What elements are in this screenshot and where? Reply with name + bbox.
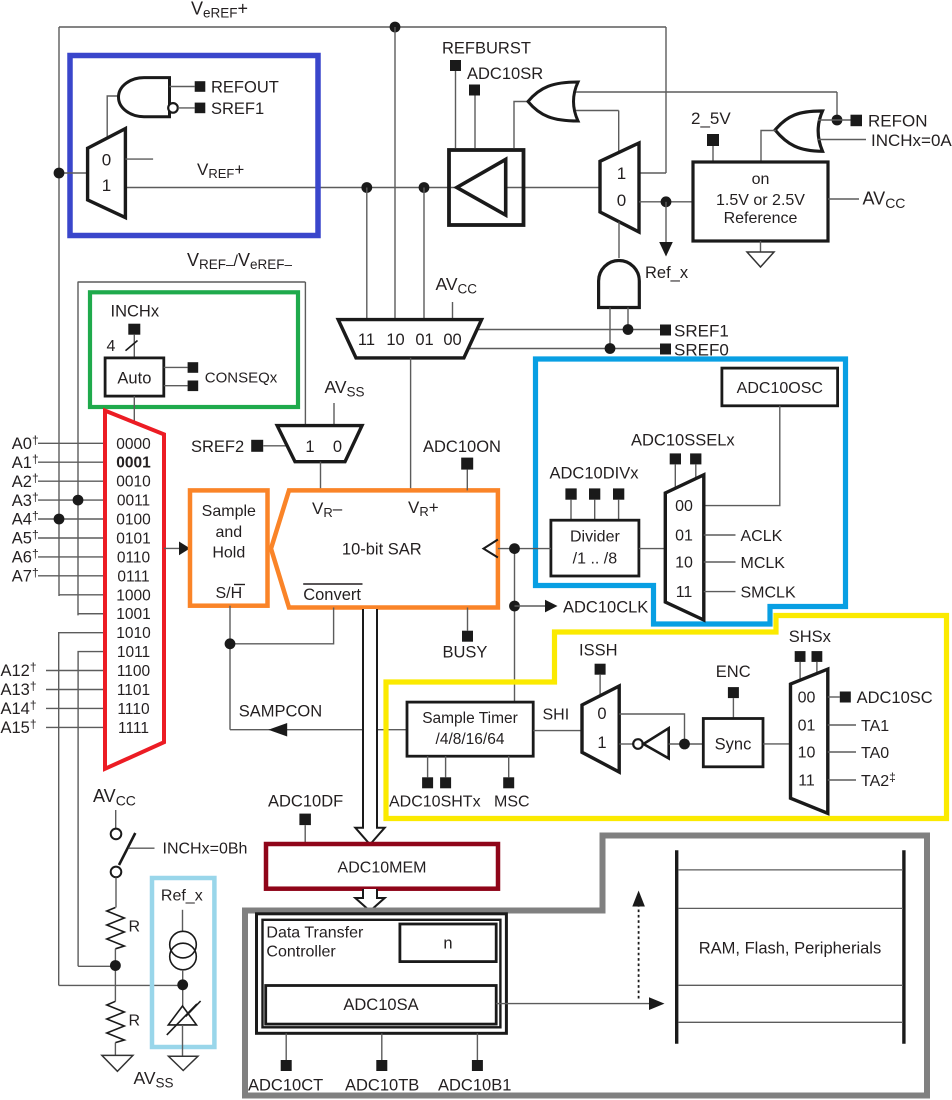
svg-text:TA0: TA0 [861,745,889,762]
blue highlight box (clock section) [536,359,846,624]
channel input wires A0-A7 [38,443,105,576]
svg-text:11: 11 [676,584,693,601]
wire ADC10OSC to clock mux [704,406,780,506]
terminal ADC10SSELx [631,432,735,489]
svg-text:01: 01 [798,718,816,735]
svg-text:CONSEQx: CONSEQx [205,370,278,387]
switch INCHx=0Bh [111,829,248,908]
wire Auto to channel mux [133,396,135,423]
svg-text:ADC10CT: ADC10CT [248,1077,323,1095]
wire mux1 input from VeREF+ rail [59,172,88,174]
junction dot mux1 input [54,168,65,179]
svg-text:A2†: A2† [12,471,39,491]
resistor R2 [107,1001,140,1042]
svg-text:0010: 0010 [116,474,151,491]
junction dot VREF+ x=424 [419,182,430,320]
svg-text:0110: 0110 [117,549,151,566]
svg-text:01: 01 [675,528,693,545]
svg-text:1.5V or 2.5V: 1.5V or 2.5V [716,192,805,209]
wire AND output to mux select [107,96,121,138]
wire mux2 input 10 [394,27,396,320]
svg-text:TA1: TA1 [861,718,889,735]
svg-text:2_5V: 2_5V [691,109,731,128]
bus ADC10MEM to DTC [355,889,384,911]
svg-text:00: 00 [675,498,693,515]
svg-text:/4/8/16/64: /4/8/16/64 [436,731,505,748]
wire VeREF+ to right mux [665,27,667,173]
node VREF+ label [197,160,244,181]
block ADC10OSC [722,368,838,406]
svg-text:0100: 0100 [116,512,151,529]
svg-text:0: 0 [333,438,342,456]
svg-text:SREF1: SREF1 [674,322,729,341]
wire current source to diode [182,970,184,1006]
terminal SREF0 net [468,341,729,360]
mux M2 (1/0 internal-external reference) [600,143,639,232]
lightblue highlight box Ref_x [152,878,214,1047]
svg-text:MCLK: MCLK [741,555,786,572]
terminal INCHx [111,303,160,358]
svg-text:ADC10CLK: ADC10CLK [563,599,648,617]
svg-text:INCHx=0Ah: INCHx=0Ah [871,131,952,150]
svg-text:Ref_x: Ref_x [161,888,203,905]
junction dot A4/VeREF+ [54,514,65,525]
svg-text:INCHx=0Bh: INCHx=0Bh [163,841,248,858]
wire mux1 0-output stub [125,158,153,160]
terminal REFBURST [442,40,531,149]
node Ref_x arrow [645,202,689,282]
svg-text:ADC10TB: ADC10TB [345,1077,419,1095]
svg-text:ADC10OSC: ADC10OSC [737,380,823,397]
ground resistor string [102,1043,133,1072]
wire or2 output to reference box [761,131,776,163]
svg-text:MSC: MSC [494,794,530,811]
svg-text:A3†: A3† [12,490,39,510]
svg-text:1: 1 [305,438,314,456]
svg-text:SREF2: SREF2 [191,438,244,456]
current source Ref_x [170,931,197,970]
svg-text:ACLK: ACLK [741,528,783,545]
node TA1 [828,718,889,735]
svg-text:0: 0 [617,191,626,210]
terminal ADC10CT [248,1033,323,1094]
node AVSS label [134,1068,174,1090]
ground Ref_x [169,1056,198,1070]
svg-text:AVCC: AVCC [93,786,136,809]
svg-text:AVSS: AVSS [325,377,365,399]
svg-text:10: 10 [798,745,816,762]
svg-text:Reference: Reference [724,210,798,227]
wire ADC10SA to RAM arrow [496,997,664,1010]
inverter G4 [619,728,703,758]
wire VREF- rail [78,282,305,616]
svg-text:ADC10SC: ADC10SC [857,689,933,707]
svg-text:and: and [215,524,242,541]
yellow highlight box (sample timer section) [386,616,947,819]
svg-text:0111: 0111 [117,568,149,585]
node TA2 [828,770,896,790]
svg-text:00: 00 [443,331,461,349]
svg-text:REFOUT: REFOUT [211,79,279,97]
node SHI wire [533,707,582,731]
svg-text:ENC: ENC [716,663,751,681]
node AVCC (resistor string) [93,786,136,829]
svg-text:1: 1 [597,734,606,752]
terminal REFON [818,112,928,131]
svg-text:00: 00 [798,690,816,707]
junction dot inverter out [679,739,690,750]
terminal ADC10SR [467,65,543,148]
node TA0 [828,745,889,762]
node ACLK [704,528,783,545]
svg-text:SREF1: SREF1 [211,100,264,118]
svg-text:1: 1 [617,164,626,183]
svg-text:VREF+: VREF+ [197,160,244,181]
junction dot VREF+ x=366.8 [361,182,372,320]
junction dot clock/SAR [509,543,520,554]
svg-text:0: 0 [597,705,606,723]
wire mux M3 output VR+ [410,358,412,491]
svg-text:1100: 1100 [117,663,151,680]
svg-text:11: 11 [798,773,815,790]
wire ADC10CLK net [498,549,551,703]
node ADC10CLK arrow [515,599,649,617]
wire 0-input loop [619,714,684,744]
terminal ADC10DF [268,793,343,845]
svg-text:AVCC: AVCC [436,274,478,296]
wire VeREF+ top rail [59,27,666,596]
mux M4 (SREF2 VR- select 1/0) [277,426,362,462]
channel input wires A12-A15 [46,671,105,728]
svg-text:SAMPCON: SAMPCON [239,703,322,721]
svg-text:TA2‡: TA2‡ [861,770,896,790]
or-gate G1 (buffer enable) [528,82,578,121]
and-gate G2 (Ref_x enable) [599,261,640,308]
svg-text:A0†: A0† [12,433,39,453]
svg-text:A15†: A15† [1,717,37,737]
junction dot REFON net [832,115,843,126]
terminal ADC10B1 [438,1033,511,1094]
junction dot SREF1/and [623,324,634,335]
svg-text:A7†: A7† [12,566,39,586]
terminal SHSx [789,628,832,681]
wire convert/sh join [230,606,334,730]
svg-text:ADC10SHTx: ADC10SHTx [389,794,481,811]
terminal ENC [716,663,751,719]
svg-text:S/H: S/H [215,585,242,602]
svg-text:4: 4 [107,338,116,355]
block Sample and Hold [190,490,268,605]
block reference generator [693,162,828,241]
svg-text:VREF–/VeREF–: VREF–/VeREF– [187,250,293,272]
terminal ADC10SHTx [389,756,481,810]
wire divider to clock mux [639,548,665,550]
svg-text:0001: 0001 [116,455,151,472]
gray highlight box (DTC section) [245,836,927,1096]
svg-text:1101: 1101 [117,682,150,699]
terminal SREF1 net [477,322,729,341]
svg-text:/1 .. /8: /1 .. /8 [573,551,618,568]
svg-text:ADC10MEM: ADC10MEM [338,860,427,877]
svg-text:A4†: A4† [12,509,39,529]
terminal ADC10TB [345,1033,419,1094]
svg-text:Divider: Divider [570,529,620,546]
wire mux M2 select [618,222,620,258]
svg-text:R: R [129,919,141,936]
junction dot A3/VREF- [73,495,84,506]
block Auto [105,358,164,396]
svg-text:Data Transfer: Data Transfer [266,925,364,942]
wire VREF+ rail [125,187,600,189]
svg-text:Sample: Sample [202,503,256,520]
svg-text:VeREF+: VeREF+ [191,0,248,21]
node INCHx=0Ah input [818,131,952,150]
wire or1 bottom input to mux select [576,111,619,153]
wire or1 output to buffer [514,102,528,149]
node MCLK [704,555,785,572]
wire mux M2 input 1 [639,172,666,174]
svg-text:A12†: A12† [1,660,37,680]
svg-text:AVCC: AVCC [863,189,906,212]
svg-text:10: 10 [386,331,404,349]
wire to node [114,949,116,1002]
svg-text:A6†: A6† [12,547,39,567]
terminal ADC10DIVx [550,465,640,521]
svg-text:REFBURST: REFBURST [442,40,531,58]
node SAMPCON [230,703,407,737]
svg-text:Convert: Convert [303,586,361,604]
mux M1 (0/1 reference select) [88,129,126,218]
block Sync [703,719,763,767]
junction dot top rail x=395 [390,22,401,33]
svg-text:1011: 1011 [117,644,150,661]
wire VREF- lower branch to resistor node [78,965,115,967]
svg-text:1111: 1111 [118,720,149,737]
svg-text:AVSS: AVSS [134,1068,174,1090]
svg-text:A14†: A14† [1,698,37,718]
wire or1 top input to REFON net [576,92,837,120]
resistor R1 [107,908,140,949]
wire and inputs [610,308,628,349]
node AVSS (mux4 input 0) [325,377,365,426]
svg-text:SHI: SHI [543,707,570,724]
diode adjustable (zener) [167,1001,201,1056]
terminal MSC [494,756,530,810]
terminal SREF2 [191,438,287,456]
wire mux M4 output VR- [320,462,322,491]
svg-text:SHSx: SHSx [789,628,832,646]
svg-text:0: 0 [102,150,111,169]
terminal ADC10SC [828,689,933,707]
terminal REFOUT [170,79,279,97]
node VREF-/VeREF- label [187,250,293,272]
svg-text:Hold: Hold [212,545,245,562]
junction dot Ref_x output node [177,979,188,990]
svg-text:ADC10B1: ADC10B1 [438,1077,511,1095]
buffer U2 (reference buffer) [449,150,524,225]
svg-text:A5†: A5† [12,528,39,548]
node VeREF+ label [191,0,248,21]
svg-text:SMCLK: SMCLK [741,584,796,601]
block Sample Timer [407,702,533,756]
svg-text:ADC10DF: ADC10DF [268,793,343,811]
register n [400,924,496,962]
svg-text:ADC10SR: ADC10SR [467,65,543,83]
mux M7 ISSH polarity select [582,686,619,772]
junction dot Ref_x node [661,196,672,207]
mux M8 SHSx trigger select [791,669,828,813]
svg-text:10: 10 [675,555,693,572]
mux M5 input channel mux (red) [105,411,164,769]
svg-text:1000: 1000 [116,587,151,604]
junction dot SREF0/and [605,343,616,354]
svg-text:Ref_x: Ref_x [645,264,689,282]
svg-text:0011: 0011 [117,493,150,510]
svg-text:R: R [129,1013,141,1030]
junction dot sampcon [225,638,236,649]
svg-text:Controller: Controller [266,944,336,961]
node Ref_x label [161,888,203,932]
wire AVCC output [828,189,905,212]
terminal BUSY [443,608,488,662]
channel input wires 1001-1011 [59,614,105,986]
svg-text:01: 01 [415,331,433,349]
junction dot ADC10CLK [509,601,520,612]
svg-text:INCHx: INCHx [111,303,160,321]
svg-text:Sync: Sync [715,736,752,754]
wire VeREF+ lower branch to Ref_x node [59,984,183,986]
svg-text:REFON: REFON [868,112,928,131]
node SMCLK [704,584,796,601]
svg-text:Auto: Auto [117,370,151,388]
bus width 4 marker [107,338,138,355]
node AVCC (mux2 input 00) [436,274,478,320]
svg-text:RAM, Flash, Peripherials: RAM, Flash, Peripherials [699,940,881,958]
svg-text:1: 1 [102,176,111,195]
svg-text:A1†: A1† [12,452,39,472]
svg-text:on: on [752,171,770,188]
wire channel mux output arrow to S&H [164,542,190,556]
svg-text:ADC10SSELx: ADC10SSELx [631,432,735,450]
terminal CONSEQx [164,362,278,391]
blue highlight box (reference output section) [70,56,318,236]
svg-text:ADC10SA: ADC10SA [343,996,418,1014]
or-gate G3 (REFON) [775,111,822,151]
ground below reference [747,241,774,267]
svg-text:ADC10ON: ADC10ON [423,438,501,456]
svg-text:0000: 0000 [116,436,151,453]
junction dot resistor node [110,960,121,971]
wire sync to SHSx mux [763,743,791,745]
svg-text:10-bit SAR: 10-bit SAR [342,541,422,559]
mux M3 (SREFx reference select 11 10 01 00) [338,320,481,358]
terminal SREF1 (gate input) [178,100,264,118]
bus SAR to ADC10MEM [355,609,384,845]
svg-text:1110: 1110 [117,701,150,718]
block 10-bit SAR [271,490,498,607]
and-gate U1 (REFOUT/SREF1) [119,78,178,117]
svg-text:BUSY: BUSY [443,644,488,662]
terminal ADC10ON [423,438,501,490]
dashed arrow DTC to RAM [632,891,645,999]
svg-text:0101: 0101 [116,531,150,548]
svg-text:1010: 1010 [116,625,151,642]
svg-text:Sample Timer: Sample Timer [422,710,518,727]
terminal 2_5V [691,109,731,162]
block Data Transfer Controller [257,914,507,1034]
block Divider /1../8 [551,520,639,576]
green highlight box (input channel section) [90,292,298,407]
svg-text:11: 11 [358,331,375,349]
register ADC10MEM [266,844,498,889]
terminal ISSH [579,642,618,697]
svg-text:ISSH: ISSH [579,642,618,660]
register ADC10SA [266,986,497,1025]
wire mux M2 input 0 from reference [639,201,693,203]
svg-text:A13†: A13† [1,679,37,699]
svg-text:1001: 1001 [116,606,150,623]
svg-text:n: n [443,935,452,953]
svg-text:ADC10DIVx: ADC10DIVx [550,465,640,483]
bus RAM Flash Peripherials [677,850,904,1043]
mux M6 clock source select [665,475,704,620]
